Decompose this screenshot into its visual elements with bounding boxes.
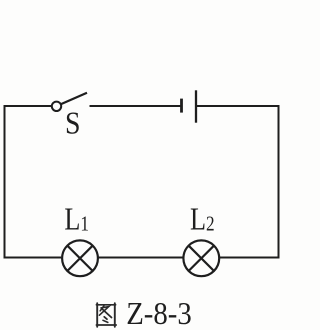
battery positive plate (long) (195, 90, 197, 122)
svg-text:Z-8-3: Z-8-3 (126, 296, 192, 330)
wire right side (278, 105, 280, 259)
svg-text:L1: L1 (64, 202, 89, 237)
lamp L2 circle (183, 240, 219, 276)
lamp L1 cross (67, 246, 92, 271)
wire battery to right corner (196, 105, 279, 107)
wire between lamps (98, 257, 183, 259)
battery negative plate (short) (180, 99, 183, 113)
wire switch to battery (90, 105, 181, 107)
svg-text:S: S (65, 106, 80, 141)
lamp L2 cross (189, 246, 214, 271)
lamp L1 circle (62, 240, 98, 276)
svg-text:L2: L2 (190, 202, 215, 237)
wire bottom-left segment (4, 257, 62, 259)
wire left side (4, 105, 6, 258)
wire top-left segment (5, 105, 52, 107)
switch S blade (61, 93, 87, 104)
switch S contact circle (52, 102, 61, 111)
wire bottom-right segment (220, 257, 280, 259)
caption character 图 (96, 303, 116, 327)
